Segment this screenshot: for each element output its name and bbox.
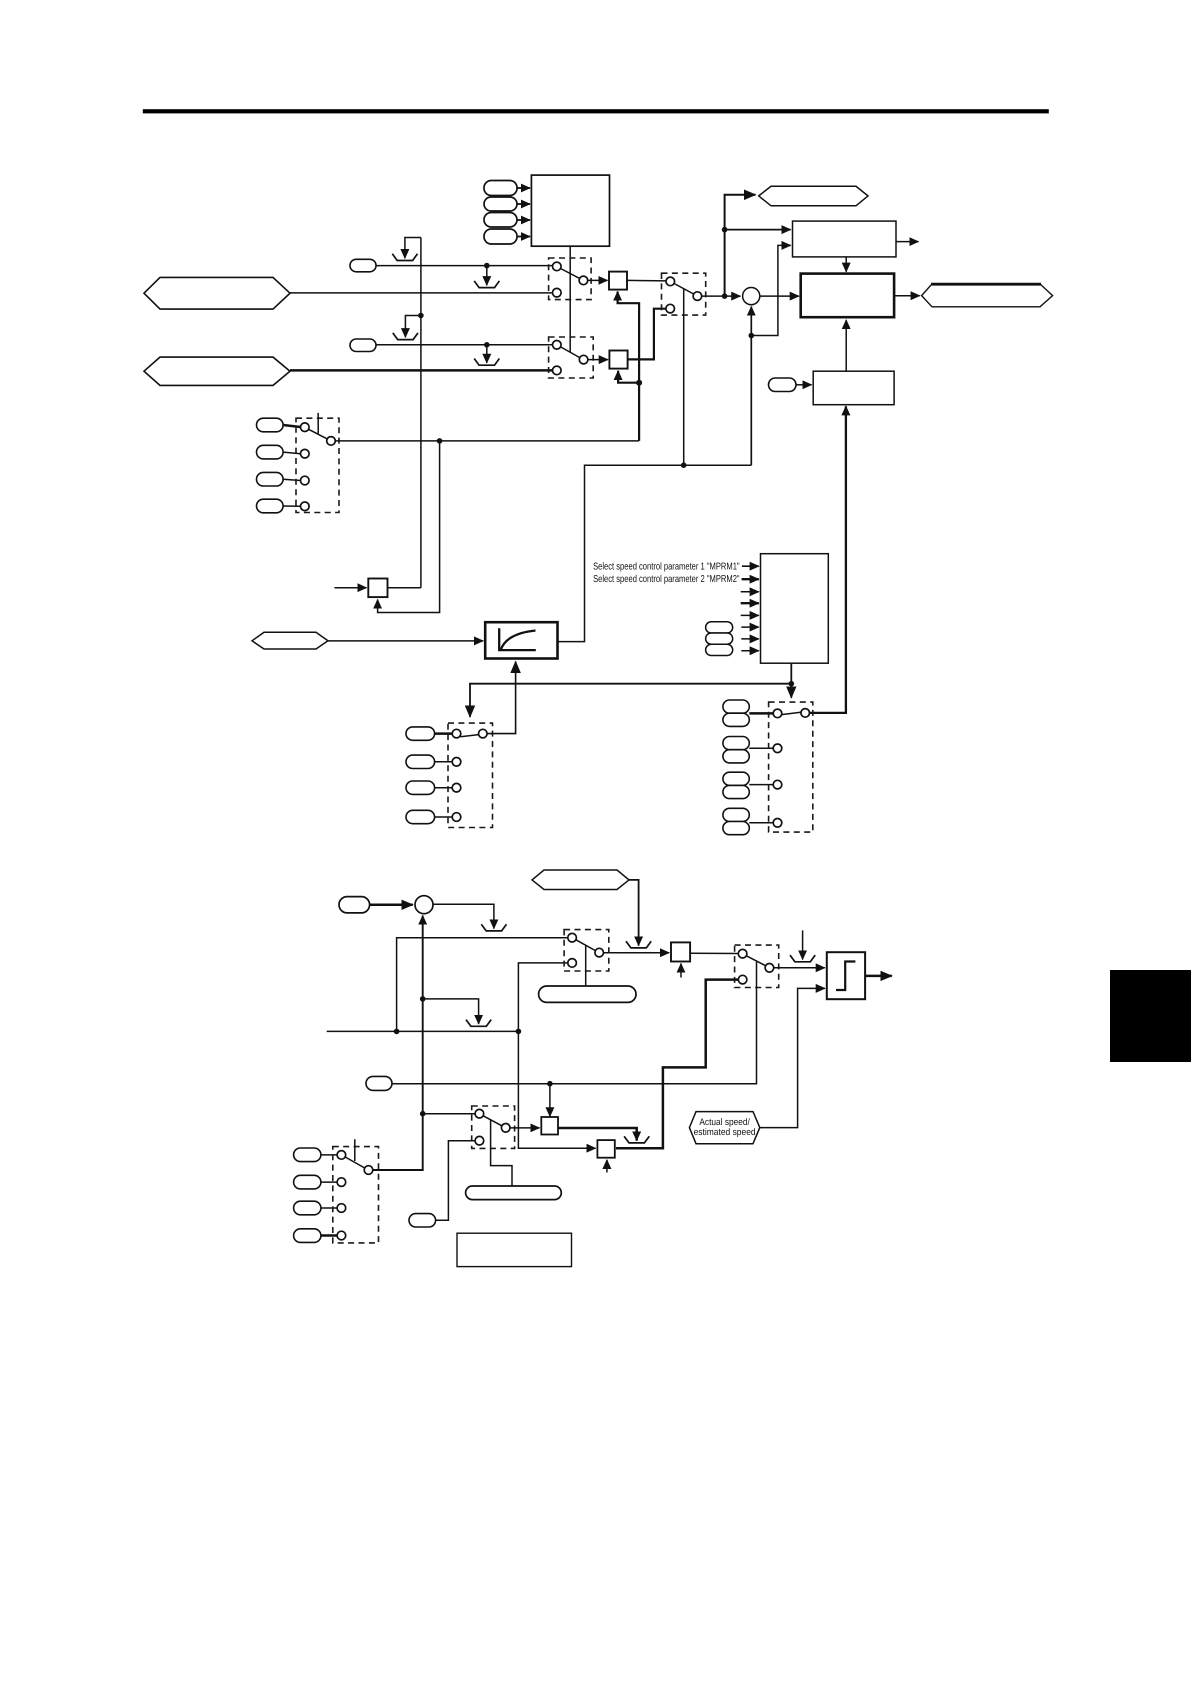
wire: P1 line to switch S1 upper contact — [376, 265, 552, 267]
wire: S3 output line (gain select bus) — [335, 440, 639, 442]
svg-text:Select speed control parameter: Select speed control parameter 2 "MPRM2" — [593, 574, 740, 585]
wire: pill group E connectors to switch S5 contacts — [749, 713, 773, 822]
input hexagon H6 — [532, 870, 629, 890]
node: junction on long vertical — [418, 313, 424, 319]
wire: L3 speed reference line — [327, 1030, 519, 1032]
switch S3 (dashed, 4-position) — [296, 418, 339, 512]
node: junction on B6 output line (S4 control) — [681, 462, 687, 468]
wire: P5 bold arrow into summing circle C2 — [370, 904, 413, 907]
wire: bold feed from S5 up into B4 bottom — [810, 406, 846, 713]
node: junction L3/L2 riser — [516, 1029, 522, 1035]
wire: S4 control line down to graph output line — [683, 289, 685, 465]
wire: graph output feed up into C1 bottom — [750, 307, 752, 466]
wire: pill group D connectors to switch S6 contacts — [435, 734, 453, 817]
input pill P5 — [339, 897, 370, 913]
wire: elbow + down-arrow into merge cup over P1 line — [405, 238, 421, 259]
wire: Q1 output to switch S4 upper contact — [627, 279, 666, 282]
multiplier Q1 — [609, 272, 627, 290]
parameter pill group C (4 pills) — [257, 418, 284, 513]
label pill LP2 — [466, 1186, 562, 1200]
square SQ4L — [597, 1140, 614, 1158]
wire: B2 down-arrow into B3 — [845, 257, 847, 272]
parameter pill group F (4 pills) — [294, 1148, 321, 1242]
input pill P6 — [366, 1076, 392, 1090]
wire: S9 output arrow into limiter B8 — [774, 967, 825, 969]
node: junction on P2 line — [484, 342, 490, 348]
wire: branch of gain bus into Q2 bottom — [618, 371, 639, 383]
node: junction on gain bus — [636, 380, 642, 386]
wire: branch to switch S7 upper contact — [423, 1113, 476, 1115]
wire: stub arrow into Q3 left — [335, 587, 367, 589]
wire: elbow + down-arrow into merge cup over P2 line — [405, 316, 421, 338]
graph block B6 (soft starter curve) — [485, 622, 557, 658]
block B2 — [793, 221, 897, 257]
merge cup over H2 line — [474, 359, 499, 366]
wire: H5 arrow into graph block B6 — [328, 640, 483, 642]
switch S2 (dashed) — [549, 337, 594, 378]
block B5 (speed control parameter selection) — [761, 554, 829, 664]
square SQ3L — [541, 1117, 558, 1135]
switch S8 (dashed) — [564, 930, 609, 971]
node: junction under B5 — [789, 681, 795, 687]
wire: S8 output arrow into square SQ1L — [604, 952, 670, 954]
limiter block B8 with step symbol — [827, 952, 865, 999]
wire: stub up-arrow into SQ4L bottom — [606, 1160, 608, 1173]
parameter pill group E (4 pairs) — [723, 700, 749, 835]
merge cup over L3 — [466, 1020, 491, 1027]
block B1 (torque reference option) — [531, 175, 609, 246]
node: junction on P6 line — [547, 1081, 553, 1087]
wire: S7 output arrow into SQ3L — [510, 1127, 540, 1129]
wire: P1 branch down-arrow into merge cup over H1 line — [486, 266, 488, 286]
wire: L1 into switch S8 upper contact — [397, 938, 568, 1032]
summing circle C1 — [743, 288, 760, 305]
merge cup over S9 output — [790, 955, 815, 962]
input pill P3 — [769, 378, 797, 392]
wire: P2 line to switch S2 upper contact — [376, 344, 552, 346]
label pill LP1 — [539, 986, 636, 1002]
wire: C2 output elbow + down-arrow into merge cup over L1 — [433, 904, 494, 928]
wire: SQ1L output to switch S9 upper contact — [690, 952, 738, 954]
multiplier Q3 — [368, 579, 387, 598]
switch S6 (dashed, 4-position) — [448, 723, 493, 827]
svg-text:estimated speed: estimated speed — [694, 1127, 756, 1138]
top rule — [143, 109, 1049, 113]
wire: Q3 output to long vertical — [388, 587, 421, 589]
wire: S3 control tick — [317, 413, 319, 434]
hexagon H4 bold top edge — [931, 283, 1041, 286]
wire: B5 bottom down-arrow into switch S5 — [790, 663, 792, 698]
switch S4 (dashed) — [662, 273, 706, 315]
wire: S2 output arrow into multiplier Q2 — [588, 359, 608, 361]
merge cup over P1 line — [392, 254, 417, 261]
node: junction on riser (branch to S7) — [420, 1111, 426, 1117]
parameter pills P4 (3 stacked) — [706, 622, 733, 656]
input hexagon H5 — [252, 632, 328, 649]
merge cup over P2 line — [393, 333, 418, 340]
wire: P2 branch down-arrow into merge cup over H2 line — [486, 345, 488, 363]
wire: arrows into parameter select block B5 — [741, 566, 759, 651]
wire: parameter select line to left + down-arrow into switch S6 — [470, 684, 791, 717]
wire: S8 control line to label pill LP1 — [585, 945, 587, 986]
wire: S10 control tick — [354, 1139, 356, 1161]
input hexagon H2 — [144, 357, 290, 385]
black page tab — [1110, 970, 1191, 1062]
input pill P7 — [409, 1214, 436, 1227]
node: junction on S4 output — [722, 293, 728, 299]
input pill group A (4 parameter pills) — [484, 181, 517, 245]
wire: H2 bold line to switch S2 lower contact — [290, 369, 552, 372]
wire: feedback branch into B2 input 2 — [751, 245, 790, 335]
wire: B3 output arrow to hexagon H4 — [894, 295, 920, 297]
wire: branch arrow into B2 input 1 — [725, 229, 791, 231]
wire: S1 output arrow into multiplier Q1 — [588, 279, 608, 281]
block B4 — [813, 371, 894, 405]
wire: H7 output elbow up into limiter B8 lower input — [760, 988, 825, 1127]
node: junction on riser (branch to cup over L3) — [420, 996, 426, 1002]
switch S7 (dashed) — [472, 1106, 515, 1148]
wire: B4 feed up into B3 bottom — [845, 320, 847, 371]
wire: S7 control elbow down to label pill LP2 — [491, 1120, 512, 1186]
wire: H6 elbow + down-arrow into merge cup over SQ1L input line — [629, 880, 639, 946]
node: junction L3/L1 riser — [394, 1029, 400, 1035]
merge cup over L1 — [481, 924, 506, 931]
wire: stub up-arrow into SQ1L bottom — [680, 964, 682, 978]
svg-text:Select speed control parameter: Select speed control parameter 1 "MPRM1" — [593, 562, 740, 573]
node: junction below C1 — [749, 333, 755, 339]
wire: pill P6 line to S9 control — [392, 962, 757, 1084]
wire: bold gain bus from S3 output line up into Q1/Q2 bottoms — [618, 292, 640, 441]
node: junction on S3 output line — [437, 438, 443, 444]
wire: H1 line to switch S1 lower contact — [290, 292, 552, 294]
wire: stub down-arrow into merge cup over S9 output — [802, 930, 804, 959]
wire: B8 bold output arrow — [865, 975, 892, 978]
wire: B2 output arrow — [896, 241, 919, 243]
switch S10 (dashed, 4-position) — [333, 1147, 379, 1243]
wire: S6 output up into B6 bottom — [487, 662, 515, 734]
wire: long vertical from Q3 output up to merge cups — [420, 238, 422, 588]
wire: L2 from L3 up into switch S8 lower contact and down into SQ4L — [518, 963, 595, 1148]
node: junction on H3 branch — [722, 227, 728, 233]
block B7 (empty label box) — [457, 1233, 572, 1266]
block B3 (speed control, bold) — [801, 274, 894, 318]
merge cup over H1 line — [474, 281, 499, 288]
wire: bold riser from S10 output up into C2 bottom — [422, 916, 424, 1171]
wire: branch down from S3 line into Q3 bottom — [378, 441, 440, 613]
input pill P1 — [350, 259, 376, 272]
switch S1 (dashed) — [549, 258, 592, 300]
wire: S4 output into summing circle C1 — [702, 295, 741, 297]
merge cup over SQ1L input line — [626, 941, 651, 948]
wire: pill group C connectors to switch S3 contacts — [283, 425, 300, 506]
wire: B1 bottom control line down to switches — [569, 246, 571, 352]
input pill P2 — [350, 339, 376, 352]
wire: bold Q2 output elbow up into S4 lower contact — [628, 309, 666, 360]
wire: S9 lower contact bold return path to SQ4L — [616, 980, 738, 1149]
wire: SQ3L bold output + down-arrow into merge cup over return line — [558, 1128, 637, 1141]
merge cup over return line — [624, 1136, 649, 1143]
wire: pill group F connectors to switch S10 contacts — [321, 1155, 337, 1236]
switch S5 (dashed, 4-position) — [769, 702, 813, 832]
wire: C1 output arrow into B3 — [760, 295, 799, 297]
input hexagon H1 — [144, 277, 290, 309]
node: junction on P1 line — [484, 263, 490, 269]
wire: B6 output up and across to C1 feed — [558, 465, 752, 641]
multiplier Q2 — [609, 351, 627, 369]
parameter pill group D (4 pills) — [406, 727, 435, 824]
feedback hexagon H7 (actual speed / estimated speed) — [689, 1112, 759, 1144]
wire: pill P7 elbow to S7 lower contact — [436, 1141, 476, 1221]
wire: P3 arrow into B4 — [796, 384, 812, 386]
summing circle C2 — [415, 896, 433, 914]
wire: branch elbow + down-arrow into merge cup over L3 — [423, 999, 479, 1024]
wire: S10 bold output to riser — [373, 1169, 424, 1171]
output hexagon H3 — [759, 186, 868, 206]
wire: down-arrow from P6 line into SQ3L top — [549, 1084, 551, 1117]
wire: branch up to output hexagon H3 — [725, 195, 756, 296]
switch S9 (dashed) — [735, 945, 779, 987]
square SQ1L — [671, 942, 690, 961]
wire: pill group A arrows into box B1 — [517, 188, 530, 237]
output hexagon H4 — [922, 284, 1053, 307]
